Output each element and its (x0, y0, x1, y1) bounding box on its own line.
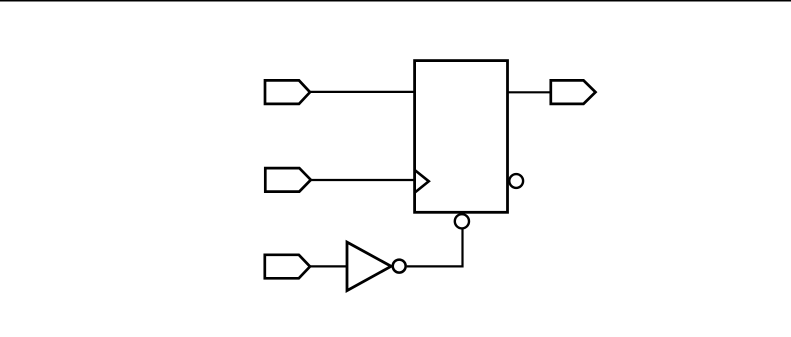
flip-flop U1 body (415, 61, 508, 213)
wire RESET to inverter (309, 265, 347, 267)
wire flip-flop to output port (508, 91, 552, 93)
inverter U2 (347, 242, 391, 291)
active-low set/reset bubble (455, 214, 469, 228)
clock input wedge (415, 170, 429, 193)
input port D (265, 80, 310, 104)
output port Q (551, 80, 596, 104)
wire inverter to active-low pin (407, 229, 463, 267)
wire CLK to flip-flop (310, 179, 416, 181)
wire D to flip-flop (309, 91, 416, 93)
inverter output bubble (393, 260, 406, 273)
inverted output bubble QB (509, 174, 523, 188)
input port CLK (265, 168, 311, 192)
input port RESET (265, 255, 310, 278)
